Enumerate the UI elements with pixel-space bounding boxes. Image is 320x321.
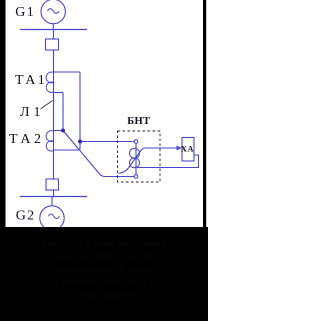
svg-text:G1: G1: [15, 5, 35, 20]
svg-text:Л1: Л1: [20, 105, 45, 120]
svg-text:форматор тока БНТ: форматор тока БНТ: [60, 277, 148, 288]
svg-text:реле тока через быстро-: реле тока через быстро-: [51, 251, 158, 262]
svg-text:Рис. 3.24. Схема включения: Рис. 3.24. Схема включения: [42, 238, 166, 249]
svg-text:БНТ: БНТ: [127, 116, 150, 127]
svg-text:насыщающийся транс-: насыщающийся транс-: [53, 264, 156, 275]
svg-text:ТА1: ТА1: [15, 73, 47, 88]
svg-text:G2: G2: [16, 209, 36, 224]
svg-text:(схема защиты): (схема защиты): [69, 290, 139, 301]
svg-text:ΧА: ΧА: [181, 144, 195, 154]
svg-text:ТА2: ТА2: [9, 132, 44, 147]
